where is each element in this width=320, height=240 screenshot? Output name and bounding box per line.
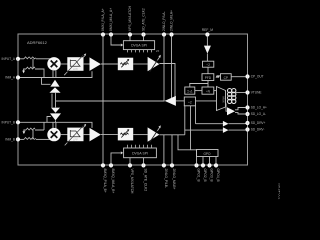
svg-text:2INLO_P/LA-: 2INLO_P/LA- bbox=[162, 11, 166, 31]
svg-text:GPO4_B: GPO4_B bbox=[216, 169, 220, 183]
DVGA SPI box B bbox=[124, 148, 157, 158]
svg-text:DVGA SPI: DVGA SPI bbox=[132, 152, 148, 156]
svg-text:2INLO_M/LB+: 2INLO_M/LB+ bbox=[172, 169, 176, 190]
wire LO1 P bbox=[235, 108, 245, 110]
pin INLO_A+ (top) bbox=[169, 10, 173, 37]
svg-text:Σ-Δ: Σ-Δ bbox=[187, 90, 193, 94]
wire N to PFD bbox=[207, 81, 209, 88]
wire LO2 M out bbox=[229, 129, 246, 132]
wire LO1 M bbox=[235, 113, 245, 114]
svg-text:2INLO_P/LB-: 2INLO_P/LB- bbox=[164, 169, 168, 189]
wire INP_A to matching bbox=[20, 58, 24, 60]
svg-text:÷N: ÷N bbox=[206, 90, 211, 94]
svg-text:CP: CP bbox=[224, 76, 228, 80]
svg-text:2INLO_M/LA+: 2INLO_M/LA+ bbox=[170, 10, 174, 31]
svg-text:8MXI_P/LA_A+: 8MXI_P/LA_A+ bbox=[101, 8, 105, 31]
MUX bbox=[217, 87, 226, 111]
svg-text:8MXI_M/LA_A+: 8MXI_M/LA_A+ bbox=[109, 8, 113, 31]
wire LO-div down left bbox=[184, 106, 186, 135]
pin BBI_M (top) bbox=[109, 8, 113, 37]
wire VGA B to driver B bbox=[133, 134, 147, 136]
wire LPF A to amp A bbox=[83, 63, 90, 65]
wire INP_B rail bbox=[20, 122, 92, 128]
wire L2 to rail A bbox=[35, 69, 44, 78]
pin INLO_A- (top) bbox=[162, 11, 166, 36]
wire L1 to mixer A bbox=[36, 58, 50, 60]
LPF A tune arrow bbox=[64, 53, 86, 75]
pin GPO4 (bottom) bbox=[214, 163, 218, 167]
wire LO-div down right bbox=[195, 106, 197, 124]
GPO box bbox=[197, 150, 219, 157]
svg-text:ADRF6612: ADRF6612 bbox=[27, 40, 48, 45]
VGA B bbox=[118, 128, 133, 140]
svg-text:GPO1_B: GPO1_B bbox=[197, 169, 201, 183]
svg-text:SD_ATE_CLK2: SD_ATE_CLK2 bbox=[144, 169, 148, 192]
mixer B bbox=[47, 128, 60, 141]
inductor L3 (zigzag) bbox=[24, 138, 36, 140]
wire amp to R-divider bbox=[206, 54, 208, 62]
wire pin143.5 stub bbox=[143, 37, 145, 41]
LO buffer A1 bbox=[50, 80, 59, 87]
inductor L2 (zigzag) bbox=[26, 67, 35, 69]
svg-text:CP_OUT: CP_OUT bbox=[251, 75, 264, 79]
divider R (/2) bbox=[203, 61, 214, 67]
LO distribution buffer (left) bbox=[165, 96, 176, 106]
VGA A bbox=[118, 58, 133, 70]
wire MUX to LO1 buffer bbox=[226, 104, 227, 112]
wire pin164 drop bbox=[163, 37, 165, 101]
pin LO2_M bbox=[245, 127, 264, 131]
pin SCLKB (bottom) bbox=[141, 163, 145, 167]
CP bbox=[221, 74, 232, 81]
svg-text:SD_ATE_CLK2: SD_ATE_CLK2 bbox=[142, 8, 146, 31]
wire GPO riser bbox=[178, 135, 197, 164]
svg-text:REF_M: REF_M bbox=[202, 28, 213, 32]
svg-text:INPUT_A: INPUT_A bbox=[2, 57, 16, 61]
LO2 buffer M bbox=[223, 127, 229, 133]
wire LO-div to LO buffer bbox=[176, 100, 184, 102]
svg-text:09724-001: 09724-001 bbox=[278, 183, 281, 199]
svg-text:SD_LO_A+: SD_LO_A+ bbox=[251, 106, 267, 110]
wire amp B to VGA B bbox=[101, 134, 118, 136]
jog A bbox=[42, 78, 51, 85]
wire INM_B to matching bbox=[20, 138, 24, 140]
svg-text:INM_B: INM_B bbox=[5, 138, 15, 142]
svg-text:PFD: PFD bbox=[205, 76, 212, 80]
wire pin172b riser bbox=[171, 135, 173, 164]
amp REF (down) bbox=[204, 46, 211, 54]
wire pin111 to DVGA A bbox=[111, 37, 123, 47]
wire L3 to mixer B bbox=[36, 138, 50, 140]
pin CP_OUT bbox=[245, 74, 263, 78]
svg-text:÷2: ÷2 bbox=[206, 63, 210, 67]
svg-text:8MXQ_P/LA_B+: 8MXQ_P/LA_B+ bbox=[103, 169, 107, 193]
wire VGA A to driver A bbox=[133, 63, 147, 65]
wire pin164b riser bbox=[163, 135, 165, 164]
pin BBQ_P (bottom) bbox=[101, 163, 105, 167]
REF input amp U2 bbox=[206, 37, 208, 46]
wire LO buffers to bus bbox=[52, 93, 56, 108]
svg-text:VTUNE: VTUNE bbox=[251, 91, 262, 95]
wire LO-div down mid bbox=[190, 106, 192, 150]
pin INP_A bbox=[2, 57, 21, 61]
wire pin111b to DVGA B bbox=[111, 151, 123, 163]
pin INM_B bbox=[5, 137, 20, 141]
LO buffer A2 bbox=[49, 87, 60, 92]
LO buffer B2 (down) bbox=[50, 113, 61, 120]
node branch A bbox=[32, 59, 34, 69]
LPF B tune arrow bbox=[65, 124, 87, 145]
pin SDIO (top) bbox=[128, 6, 132, 37]
mixer A bottom legs bbox=[53, 70, 56, 78]
svg-text:÷2: ÷2 bbox=[188, 100, 192, 104]
amp B bbox=[90, 128, 101, 141]
wire mixer A to LPF A bbox=[61, 63, 68, 65]
wire to LO2 buffer2 bbox=[185, 129, 223, 131]
VCO coils bbox=[228, 89, 236, 104]
svg-text:GPO3_B: GPO3_B bbox=[210, 169, 214, 183]
LO buffer B1 (down) bbox=[51, 108, 60, 113]
PFD bbox=[202, 74, 214, 81]
wire amp A to VGA A bbox=[101, 63, 118, 65]
jog B bbox=[47, 117, 51, 123]
pin GPO1 (bottom) bbox=[194, 163, 198, 167]
IC boundary bbox=[18, 34, 248, 165]
svg-text:LPF: LPF bbox=[73, 138, 79, 142]
mixer A bbox=[47, 57, 60, 70]
wire LO-div to MUX bbox=[196, 100, 217, 102]
svg-text:8MXQ_M/LA_B+: 8MXQ_M/LA_B+ bbox=[111, 169, 115, 194]
pin GPO2 (bottom) bbox=[201, 163, 205, 167]
wire pin143.5b stub bbox=[143, 158, 145, 164]
wire N to MUX bbox=[214, 90, 216, 92]
wire CP to pin CP_OUT bbox=[231, 76, 245, 78]
wire SD top L bbox=[190, 84, 208, 88]
wire mixer B to LPF B bbox=[61, 134, 68, 136]
wire INM_A rail bbox=[20, 71, 92, 77]
wire pin130 stub bbox=[129, 37, 131, 41]
sigma-delta box bbox=[185, 87, 195, 94]
driver B (variable amp) bbox=[148, 125, 161, 142]
amp A bbox=[90, 57, 101, 71]
wire SD to N bbox=[195, 90, 202, 92]
inductor L4 (zigzag) bbox=[26, 128, 35, 130]
svg-text:SD_LO_A-: SD_LO_A- bbox=[251, 112, 266, 116]
svg-text:SD_DRV-: SD_DRV- bbox=[251, 128, 265, 132]
wire VCO to VTUNE bbox=[236, 92, 245, 94]
mixer B top legs bbox=[53, 122, 56, 129]
DVGA SPI box A bbox=[123, 41, 154, 50]
pin SCLK (top) bbox=[141, 8, 145, 37]
wire LO B2 to rail bbox=[55, 120, 57, 122]
svg-text:INPUT_B: INPUT_B bbox=[2, 121, 15, 125]
svg-text:GPO2_B: GPO2_B bbox=[203, 169, 207, 183]
svg-text:MUX: MUX bbox=[221, 97, 225, 103]
svg-text:DVGA SPI: DVGA SPI bbox=[131, 44, 147, 48]
svg-text:VPS_MX/LATCH: VPS_MX/LATCH bbox=[130, 169, 134, 194]
svg-text:GPO: GPO bbox=[203, 152, 211, 156]
LO2 buffer P bbox=[223, 121, 229, 127]
divider N box bbox=[202, 87, 214, 94]
wire driver B output bbox=[159, 134, 184, 136]
svg-text:VPS_MX/LATCH: VPS_MX/LATCH bbox=[128, 6, 132, 31]
GPO wires bbox=[203, 157, 216, 164]
wire pin171.5 drop bbox=[171, 37, 173, 101]
wire pin130b stub bbox=[129, 158, 131, 164]
pin INLO_B+ (bottom) bbox=[170, 163, 174, 167]
wire driver A output bbox=[159, 64, 175, 102]
wire LPF B to amp B bbox=[83, 134, 90, 136]
svg-text:LPF: LPF bbox=[73, 67, 79, 71]
DVGA A control ticks bbox=[128, 50, 152, 53]
pin REF_M (top) bbox=[202, 28, 213, 37]
LPF B bbox=[67, 128, 83, 142]
pin SDIOB (bottom) bbox=[128, 163, 132, 167]
wire R-div to PFD bbox=[207, 67, 209, 74]
pin BBQ_M (bottom) bbox=[109, 163, 113, 167]
pin GPO3 (bottom) bbox=[207, 163, 211, 167]
pump arrows bbox=[216, 75, 221, 78]
DVGA B control ticks bbox=[128, 145, 152, 148]
driver A (variable amp) bbox=[148, 55, 161, 72]
arrow to INM rail A bbox=[22, 69, 26, 73]
wire pin103 rail (vertical) bbox=[102, 37, 104, 164]
inductor L1 (zigzag) bbox=[24, 57, 36, 59]
wire L4 to rail B bbox=[35, 122, 44, 130]
node branch B bbox=[32, 130, 34, 139]
arrow to INM rail B bbox=[23, 130, 27, 134]
LO bus bbox=[56, 100, 165, 102]
pin LO1_M bbox=[245, 112, 266, 116]
bottom pin labels bbox=[103, 169, 220, 194]
wire to LO2 buffer1 bbox=[196, 123, 223, 125]
pin INLO_B- (bottom) bbox=[162, 163, 166, 167]
pin LO2_P bbox=[245, 121, 265, 125]
LO1 buffer bbox=[227, 107, 235, 115]
wire LO2 P out bbox=[229, 122, 246, 125]
pin LO1_P bbox=[245, 105, 267, 109]
svg-text:INM_A: INM_A bbox=[5, 76, 16, 80]
LPF A bbox=[67, 57, 83, 71]
pin VTUNE bbox=[245, 90, 261, 94]
svg-text:2X: 2X bbox=[156, 49, 159, 53]
LO divider box bbox=[184, 97, 195, 106]
pin BBI_P (top) bbox=[101, 8, 105, 36]
pin INP_B bbox=[2, 120, 21, 124]
pin INM_A bbox=[5, 75, 20, 79]
svg-text:SD_DRV+: SD_DRV+ bbox=[251, 121, 266, 125]
